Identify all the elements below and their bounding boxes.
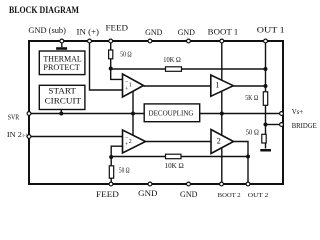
outer IC boundary box [29,41,283,184]
pin GND (sub) [60,39,64,43]
ground symbol right [260,149,271,152]
pin IN (+) [88,39,92,43]
resistor R 50ohm top [109,50,113,59]
op-amp A2 [123,130,146,153]
wire: 50ohm R to bottom FEED pin [110,157,112,184]
svg-text:10K Ω: 10K Ω [163,56,181,64]
node BOOT rail / decoupling [220,112,224,116]
wire: A2 bottom input from feedback node ch2 [111,146,122,157]
op-amp P2 [211,130,234,154]
START CIRCUIT box [39,85,85,109]
pin BOOT 2 [220,182,224,186]
wire: FEED stub to 50ohm R1 [110,41,112,69]
svg-text:FEED: FEED [106,23,129,33]
wire: SVR / decoupling / Vs+ long horizontal rail y=113.5 [29,113,281,115]
wire: feedback into A1 inverting input [111,69,123,80]
DECOUPLING box [144,104,200,122]
svg-text:DECOUPLING: DECOUPLING [149,109,194,117]
svg-text:(-): (-) [23,133,28,138]
pin SVR [27,112,31,116]
op-amp A1 [123,74,144,97]
pin FEED top [109,39,113,43]
pin GND bottom 1 [148,182,152,186]
svg-text:BLOCK DIAGRAM: BLOCK DIAGRAM [9,6,79,16]
pin GND top 1 [148,39,152,43]
node bridge tap [264,123,268,127]
wire: 10K feedback rail ch2 [111,156,248,158]
op-amp P1 [211,75,234,96]
node start stub [59,112,63,116]
resistor R 50ohm bottom [109,166,113,178]
pin BOOT 1 [220,39,224,43]
wire: OUT1 vertical line with 5K/50ohm divider [265,41,267,149]
pin GND top 2 [187,39,191,43]
svg-text:OUT 1: OUT 1 [257,24,285,34]
svg-text:2: 2 [217,136,221,145]
svg-text:1: 1 [129,83,132,89]
wire: IN 2(-) to A2 top input [29,136,123,138]
wire: IN(+) to A1 non-inverting input [90,41,123,90]
svg-text:50 Ω: 50 Ω [246,129,259,137]
svg-text:IN (+): IN (+) [77,27,100,37]
svg-text:10K Ω: 10K Ω [165,162,184,170]
node feedback ch1 [109,67,113,71]
svg-text:OUT 2: OUT 2 [248,192,268,199]
wire: BRIDGE wire [266,124,282,126]
GND (sub) substrate tab [61,41,63,47]
node bias stub [131,112,135,116]
pin GND bottom 2 [187,182,191,186]
svg-text:FEED: FEED [96,189,119,199]
node P1 out [264,84,268,88]
svg-text:BOOT 2: BOOT 2 [218,192,241,199]
pin IN 2(-) [27,135,31,139]
svg-text:IN 2: IN 2 [7,130,22,139]
svg-text:Vs+: Vs+ [292,107,304,116]
svg-text:GND: GND [145,27,162,37]
pin Vs+ [280,112,284,116]
svg-text:BOOT 1: BOOT 1 [208,26,239,36]
svg-text:GND: GND [178,27,195,37]
wire: BOOT1-BOOT2 vertical line [221,41,223,184]
svg-text:50 Ω: 50 Ω [119,167,130,175]
resistor R 10K top [166,67,182,72]
svg-text:GND (sub): GND (sub) [28,25,66,35]
wire: P1 output to OUT1 line [233,85,265,87]
THERMAL PROTECT box [39,51,85,75]
wire: P2 output to OUT2 pin [234,142,249,185]
svg-text:GND: GND [138,188,157,198]
pin OUT 2 [246,182,250,186]
svg-text:50 Ω: 50 Ω [120,51,132,59]
wire: A1 output to P1 input [144,85,211,87]
node 10K to OUT2 [246,155,250,159]
svg-text:GND: GND [180,189,198,199]
wire: A2 output to P2 input [146,141,212,143]
pin FEED bottom [109,182,113,186]
svg-text:1: 1 [215,80,219,89]
pin BRIDGE [280,123,284,127]
node feedback ch2 [109,155,113,159]
wire: bias stub A1/A2 to rail [132,92,134,136]
svg-text:CIRCUIT: CIRCUIT [45,96,82,106]
svg-text:SVR: SVR [8,112,20,121]
svg-text:2: 2 [129,139,132,145]
resistor R 50ohm right [262,134,266,143]
wire: START CIRCUIT stub to rail [60,110,62,114]
resistor R 10K bottom [166,154,182,159]
svg-text:5K Ω: 5K Ω [245,94,258,102]
pin OUT 1 [264,39,268,43]
node 10K to OUT1 [264,67,268,71]
svg-text:START: START [48,86,76,96]
svg-text:BRIDGE: BRIDGE [292,121,317,130]
wire: 10K feedback rail ch1 [111,68,266,70]
svg-text:PROTECT: PROTECT [43,62,80,72]
resistor R 5K right [263,92,267,106]
